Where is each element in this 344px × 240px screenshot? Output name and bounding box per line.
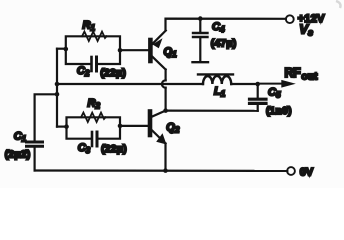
resistor R2 [81, 113, 106, 122]
node: Q1/Q2 collectors junction [163, 108, 168, 113]
wire: collectors node to C5 bottom [166, 109, 258, 111]
node: R2C3 left [64, 124, 69, 129]
capacitor C4 [193, 19, 209, 63]
node: L1 / C5 / RF out junction [255, 82, 260, 87]
svg-text:RF: RF [285, 66, 302, 80]
base bar [148, 40, 153, 61]
emitter diagonal [152, 131, 165, 144]
wire: Q1 collector down to collectors node, with hop over feedback wire [165, 70, 167, 81]
transistor Q1 (PNP) [150, 31, 165, 70]
svg-text:(2μ2): (2μ2) [5, 149, 31, 160]
core bar [198, 73, 233, 75]
wire: R2C3 loop frame [67, 117, 121, 126]
wire: feedback line bus to L1 [57, 83, 203, 85]
node: R1C2 right [118, 48, 123, 53]
capacitor C5 [257, 84, 259, 98]
svg-text:(1n0): (1n0) [266, 106, 292, 117]
wire: base of Q1 [120, 49, 148, 51]
wire: Q2 emitter to 0V rail [164, 144, 166, 171]
node: R2C3 right [118, 124, 123, 129]
wire: 0V bottom rail [35, 169, 288, 172]
svg-text:(22μ): (22μ) [101, 144, 127, 155]
wire: bus link to R1C2 [57, 48, 66, 50]
emitter diagonal to top rail [153, 31, 166, 44]
capacitor C1 [27, 141, 43, 144]
emitter arrow (points away: NPN) [156, 133, 166, 144]
node: C4 to +12V rail junction [198, 16, 203, 21]
terminal +12V [286, 15, 294, 23]
wire hop (no connection) [162, 80, 166, 87]
wire: bus link to R2C3 [57, 125, 67, 127]
svg-text:(22μ): (22μ) [100, 68, 126, 79]
emitter arrow (points into base: PNP) [153, 38, 163, 48]
wire: left bias bus [56, 49, 58, 127]
terminal 0V [287, 167, 295, 175]
transistor Q2 (NPN) [150, 111, 167, 145]
collector diagonal [153, 57, 166, 70]
svg-text:out: out [301, 71, 318, 82]
coil [203, 76, 231, 84]
svg-text:0V: 0V [300, 166, 314, 178]
collector diagonal to collectors node [152, 111, 165, 117]
resistor R1 [82, 32, 107, 41]
wire: +12V top rail [166, 19, 286, 31]
RF out arrow [258, 83, 282, 85]
node: bus / feedback wire [55, 82, 60, 87]
wire: C1 branch [35, 94, 57, 140]
base bar [148, 112, 153, 136]
svg-text:(47μ): (47μ) [211, 39, 237, 50]
inductor L1 [198, 74, 233, 84]
node: Q2 emitter / 0V rail [163, 168, 168, 173]
capacitor C2 [90, 57, 93, 71]
capacitor C3 [91, 132, 94, 146]
node: bus / C1 branch [55, 92, 60, 97]
wire: L1 to output node [231, 83, 258, 85]
wire: R1C2 loop frame [66, 36, 120, 50]
node: R1C2 left [64, 47, 69, 52]
wire: base of Q2 [120, 125, 148, 127]
